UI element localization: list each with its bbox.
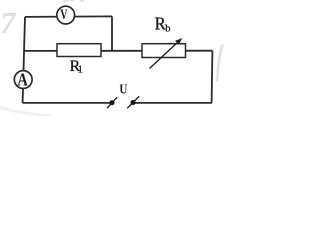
- resistor R1 body: [57, 44, 101, 57]
- rheostat Rb wiper arrow: [150, 41, 180, 69]
- wire: top loop (voltmeter branch): [25, 15, 112, 18]
- watermark swoosh (faint, bottom-left): [0, 107, 52, 117]
- svg-text:V: V: [60, 6, 68, 22]
- terminal right slash: [127, 96, 139, 108]
- svg-text:U: U: [119, 81, 127, 96]
- svg-text:b: b: [165, 24, 170, 35]
- rheostat Rb body: [142, 44, 186, 58]
- wire: bottom left segment to source terminal: [23, 102, 112, 104]
- ammeter A: [14, 71, 32, 89]
- voltmeter V: [57, 6, 75, 24]
- source terminal left (binding post): [110, 100, 115, 105]
- watermark arc (faint, top edge): [64, 0, 75, 3]
- watermark speck (faint, top edge): [80, 0, 84, 2]
- wire: main middle row through R1 and Rb: [24, 50, 212, 52]
- watermark stroke (faint, right edge): [216, 45, 224, 82]
- svg-text:A: A: [17, 69, 28, 90]
- wire: left vertical (battery/ammeter branch): [23, 17, 25, 103]
- terminal left slash: [107, 97, 117, 108]
- source terminal right (binding post): [131, 100, 136, 105]
- wire: right vertical: [211, 51, 214, 103]
- svg-text:7: 7: [0, 5, 17, 40]
- wire: bottom right segment from source terminal: [133, 102, 212, 104]
- svg-text:1: 1: [78, 65, 83, 76]
- wire: voltmeter right drop to R1/Rb node: [111, 16, 113, 50]
